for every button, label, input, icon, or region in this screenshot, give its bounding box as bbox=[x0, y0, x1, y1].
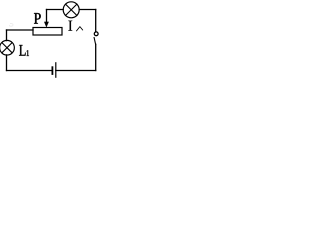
wiper arrowhead bbox=[44, 22, 48, 27]
label L1 bbox=[19, 45, 26, 56]
wire bottom right bbox=[56, 70, 96, 72]
wire top-left horizontal bbox=[7, 29, 34, 31]
label subscript caret bbox=[77, 27, 83, 31]
label P bbox=[34, 13, 41, 24]
wire top middle bbox=[47, 9, 64, 11]
wiper wire vertical bbox=[46, 10, 48, 23]
wire top right bbox=[79, 9, 95, 11]
wire left vertical lower bbox=[6, 55, 8, 71]
switch S bbox=[94, 32, 98, 44]
lamp L1 bbox=[0, 40, 14, 55]
wire left vertical upper bbox=[6, 30, 8, 41]
wire right vertical lower bbox=[95, 44, 97, 70]
rheostat R box bbox=[33, 28, 62, 36]
wire right vertical upper bbox=[95, 10, 97, 32]
battery cell bbox=[52, 63, 55, 77]
faint print artifact bbox=[9, 23, 13, 26]
wire bottom left bbox=[7, 70, 52, 72]
lamp L2 bbox=[63, 2, 79, 18]
label subscript 1 bbox=[27, 50, 30, 56]
label I bbox=[68, 21, 72, 31]
